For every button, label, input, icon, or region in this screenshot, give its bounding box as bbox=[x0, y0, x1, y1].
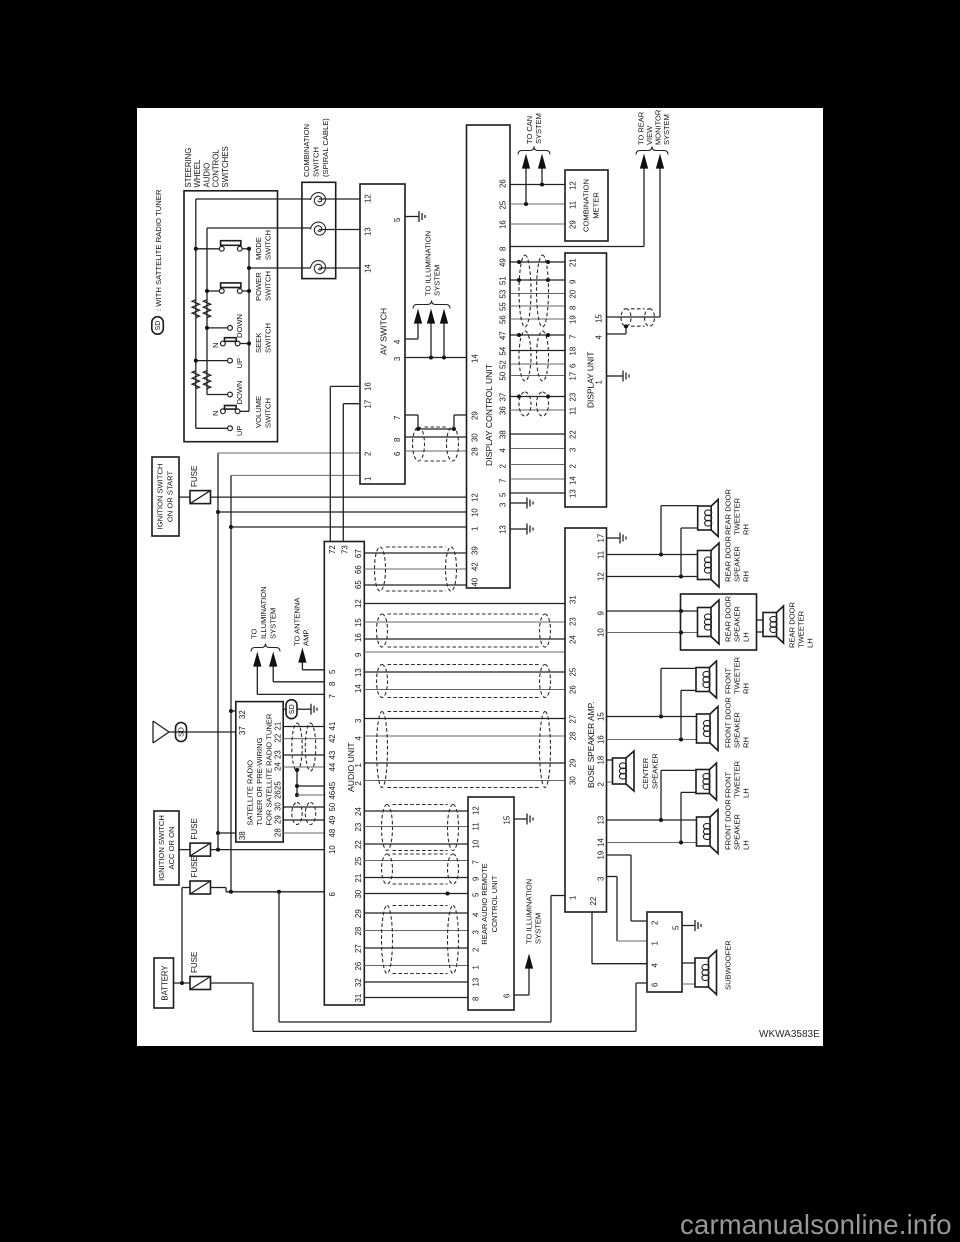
svg-text:9: 9 bbox=[597, 611, 606, 615]
svg-text:31: 31 bbox=[569, 595, 578, 604]
svg-text:11: 11 bbox=[569, 201, 578, 209]
display control to display unit quint 49-21 51-9 53-20 55-8 56-19 bbox=[510, 261, 565, 263]
svg-text:44: 44 bbox=[328, 762, 337, 771]
svg-text:10: 10 bbox=[328, 845, 337, 854]
svg-text:ILLUMINATION: ILLUMINATION bbox=[259, 586, 268, 639]
illumination brace and label at AV switch bbox=[413, 301, 450, 309]
svg-text:26: 26 bbox=[274, 790, 283, 799]
svg-text:40: 40 bbox=[471, 577, 480, 586]
svg-text:16: 16 bbox=[499, 220, 508, 229]
svg-text:8: 8 bbox=[472, 997, 481, 1001]
bose pin 10 wire bbox=[607, 632, 698, 634]
svg-text:RH: RH bbox=[742, 524, 751, 535]
svg-text:FRONT: FRONT bbox=[724, 771, 733, 798]
svg-text:RH: RH bbox=[742, 571, 751, 582]
bose pin 15 to front door speaker RH and front tweeter RH bbox=[607, 716, 697, 718]
svg-text:SWITCH: SWITCH bbox=[264, 230, 273, 260]
bose pin 22 to subwoofer connector pin 4 bbox=[591, 912, 593, 964]
svg-text:42: 42 bbox=[471, 562, 480, 571]
svg-text:TO ANTENNA: TO ANTENNA bbox=[293, 597, 302, 646]
svg-text:SYSTEM: SYSTEM bbox=[433, 265, 442, 296]
svg-text:TO CAN: TO CAN bbox=[525, 116, 534, 144]
svg-text:12: 12 bbox=[471, 493, 480, 502]
svg-text:45: 45 bbox=[328, 781, 337, 790]
wire rail1 to spiral S1 to AV pin 12 bbox=[196, 198, 311, 200]
svg-text:15: 15 bbox=[503, 815, 512, 824]
watermark carmanualsonline.info bbox=[680, 1209, 952, 1241]
shield drain to audio pin 45 bbox=[296, 770, 298, 795]
svg-text:LH: LH bbox=[742, 632, 751, 642]
AV pin 4 to illumination arrow bbox=[405, 338, 418, 340]
svg-text:41: 41 bbox=[328, 722, 337, 731]
svg-text:8: 8 bbox=[499, 247, 508, 251]
svg-text:37: 37 bbox=[499, 393, 508, 402]
power feed: BATTERY box bbox=[154, 958, 174, 1008]
REAR DOOR SPEAKER LH speaker bbox=[698, 608, 712, 637]
svg-text:7: 7 bbox=[499, 479, 508, 483]
svg-text:2: 2 bbox=[597, 782, 606, 786]
svg-text:STEERING: STEERING bbox=[184, 148, 193, 188]
svg-text:4: 4 bbox=[393, 339, 402, 344]
svg-text:5: 5 bbox=[672, 925, 681, 930]
svg-text:SEEK: SEEK bbox=[254, 333, 263, 353]
svg-text:TO ILLUMINATION: TO ILLUMINATION bbox=[424, 231, 433, 296]
svg-text:21: 21 bbox=[354, 874, 363, 883]
svg-text:12: 12 bbox=[472, 806, 481, 815]
svg-text:56: 56 bbox=[499, 315, 508, 324]
svg-text:48: 48 bbox=[328, 829, 337, 838]
svg-text:24: 24 bbox=[354, 807, 363, 816]
wire ACC to fuse F1 bbox=[179, 849, 190, 851]
svg-text:49: 49 bbox=[499, 258, 508, 267]
svg-text:UP: UP bbox=[235, 358, 244, 369]
REAR DOOR TWEETER RH speaker bbox=[698, 506, 712, 530]
audio to bose pair 15-23 16-24 bbox=[364, 621, 565, 623]
svg-text:TWEETER: TWEETER bbox=[733, 760, 742, 798]
audio to rear-audio wires 32-13 31-8 bbox=[364, 981, 468, 983]
svg-text:N: N bbox=[211, 343, 220, 348]
svg-text:14: 14 bbox=[471, 354, 480, 363]
svg-text:SATELLITE RADIO: SATELLITE RADIO bbox=[246, 760, 255, 826]
FRONT TWEETER LH speaker bbox=[696, 770, 710, 794]
svg-text:REAR AUDIO REMOTE: REAR AUDIO REMOTE bbox=[480, 863, 489, 944]
svg-text:3: 3 bbox=[569, 448, 578, 452]
svg-text:12: 12 bbox=[364, 194, 373, 203]
svg-text:14: 14 bbox=[597, 838, 606, 847]
resistor R4 bbox=[203, 371, 210, 389]
svg-text:21: 21 bbox=[569, 258, 578, 267]
svg-text:1: 1 bbox=[471, 527, 480, 531]
svg-text:49: 49 bbox=[328, 816, 337, 825]
svg-text:26: 26 bbox=[569, 685, 578, 694]
svg-text:FRONT DOOR: FRONT DOOR bbox=[724, 799, 733, 850]
svg-text:25: 25 bbox=[499, 200, 508, 209]
svg-text:22: 22 bbox=[274, 734, 283, 743]
svg-text:4: 4 bbox=[354, 736, 363, 741]
svg-text:6: 6 bbox=[569, 364, 578, 368]
svg-text:2: 2 bbox=[569, 464, 578, 468]
svg-text:17: 17 bbox=[364, 400, 373, 409]
AV pin 7 to display pin 29 shielded bbox=[405, 414, 418, 416]
svg-text:N: N bbox=[211, 411, 220, 416]
SEEK SWITCH up contact bbox=[228, 358, 233, 363]
diagram code label bbox=[759, 1029, 820, 1040]
svg-text:2: 2 bbox=[364, 452, 373, 456]
svg-text:15: 15 bbox=[354, 618, 363, 627]
svg-text:7: 7 bbox=[393, 416, 402, 420]
svg-text:2: 2 bbox=[499, 464, 508, 468]
subwoofer connector pin 5 ground bbox=[682, 925, 690, 927]
svg-text:50: 50 bbox=[328, 802, 337, 811]
svg-text:29: 29 bbox=[471, 411, 480, 420]
svg-text:47: 47 bbox=[499, 331, 508, 340]
svg-text:FUSE: FUSE bbox=[190, 856, 199, 877]
svg-text:13: 13 bbox=[354, 668, 363, 677]
svg-text:IGNITION SWITCH: IGNITION SWITCH bbox=[156, 464, 165, 530]
svg-text:30: 30 bbox=[471, 433, 480, 442]
bose pin 3 to subwoofer connector pin 1 bbox=[607, 876, 618, 878]
bose pin 14 wire bbox=[607, 842, 697, 844]
CAN system arrows bbox=[524, 202, 528, 206]
svg-text:TWEETER: TWEETER bbox=[733, 656, 742, 694]
svg-text:55: 55 bbox=[499, 302, 508, 311]
STEERING WHEEL AUDIO CONTROL SWITCHES box bbox=[184, 191, 278, 442]
svg-text:10: 10 bbox=[472, 839, 481, 848]
svg-text:12: 12 bbox=[597, 572, 606, 581]
bose pin 19 to subwoofer connector pin 2 bbox=[607, 854, 632, 856]
wire rail2 to spiral S2 to AV pin 13 bbox=[207, 227, 311, 229]
svg-text:2: 2 bbox=[472, 948, 481, 952]
svg-text:SPEAKER: SPEAKER bbox=[733, 712, 742, 748]
svg-text:REAR DOOR: REAR DOOR bbox=[724, 535, 733, 582]
illumination brace and label at audio unit bbox=[251, 644, 280, 652]
svg-text:SWITCH: SWITCH bbox=[264, 323, 273, 353]
svg-text:4: 4 bbox=[472, 912, 481, 917]
svg-text:12: 12 bbox=[569, 181, 578, 190]
REAR DOOR TWEETER LH speaker bbox=[763, 613, 777, 637]
svg-text:1: 1 bbox=[569, 896, 578, 900]
audio to bose wire 12-31 bbox=[364, 603, 565, 605]
wiring diagram sheet (rotated 90deg CCW schematic) bbox=[137, 108, 823, 1046]
svg-text:26: 26 bbox=[354, 962, 363, 971]
svg-text:8: 8 bbox=[328, 682, 337, 686]
resistor R2 bbox=[203, 300, 210, 318]
svg-text:METER: METER bbox=[592, 192, 601, 219]
svg-text:65: 65 bbox=[354, 580, 363, 589]
svg-text:FUSE: FUSE bbox=[190, 952, 199, 973]
bose pin 9 to rear door speaker LH bbox=[607, 610, 698, 612]
subwoofer wires bbox=[682, 962, 695, 964]
svg-text:13: 13 bbox=[569, 489, 578, 498]
svg-text:SYSTEM: SYSTEM bbox=[534, 113, 543, 144]
svg-text:38: 38 bbox=[499, 430, 508, 439]
POWER SWITCH bbox=[219, 289, 224, 294]
resistor R3 bbox=[192, 371, 199, 389]
audio unit antenna amp arrow from pin 5 bbox=[302, 669, 324, 671]
svg-text:FUSE: FUSE bbox=[190, 818, 199, 839]
display control to display unit wires 38-22 4-3 2-2 7-14 5-13 bbox=[510, 433, 565, 435]
svg-text:4: 4 bbox=[499, 448, 508, 453]
AV SWITCH box bbox=[360, 184, 405, 484]
display unit pin 15 shielded wire to rear view monitor bbox=[607, 316, 661, 318]
svg-text:6: 6 bbox=[651, 983, 660, 987]
svg-text:13: 13 bbox=[499, 525, 508, 534]
svg-text:5: 5 bbox=[393, 217, 402, 222]
svg-text:15: 15 bbox=[595, 314, 604, 323]
svg-text:REAR DOOR: REAR DOOR bbox=[788, 601, 797, 648]
svg-text:23: 23 bbox=[354, 823, 363, 832]
display unit pin 4 shield drain bbox=[607, 333, 627, 335]
audio to rear-audio wire 30-5 bbox=[364, 893, 468, 895]
svg-text:42: 42 bbox=[328, 734, 337, 743]
svg-text:5: 5 bbox=[472, 892, 481, 897]
wire ignition to fuse F4 bbox=[179, 496, 190, 498]
svg-text:8: 8 bbox=[569, 306, 578, 310]
svg-text:WHEEL: WHEEL bbox=[193, 159, 202, 187]
VOLUME SWITCH down contact bbox=[228, 392, 233, 397]
svg-text:18: 18 bbox=[597, 756, 606, 765]
svg-text:3: 3 bbox=[597, 877, 606, 881]
svg-text:22: 22 bbox=[569, 430, 578, 439]
svg-text:14: 14 bbox=[364, 264, 373, 273]
SEEK SWITCH N contact bbox=[221, 341, 226, 346]
svg-text:TWEETER: TWEETER bbox=[733, 497, 742, 535]
svg-text:SUBWOOFER: SUBWOOFER bbox=[724, 940, 733, 990]
steering rail 1 bbox=[195, 199, 197, 428]
battery rail to AV switch pin 1 / display pin 1 / sat pin 32 bbox=[230, 475, 232, 891]
svg-text:25: 25 bbox=[274, 781, 283, 790]
svg-text:4: 4 bbox=[651, 963, 660, 968]
svg-text:36: 36 bbox=[499, 406, 508, 415]
svg-text:25: 25 bbox=[569, 667, 578, 676]
shield ellipses AV to display bbox=[413, 427, 425, 461]
svg-text:29: 29 bbox=[569, 220, 578, 229]
fuse F1 ACC bbox=[190, 843, 211, 856]
svg-text:COMBINATION: COMBINATION bbox=[582, 179, 591, 232]
svg-text:9: 9 bbox=[569, 280, 578, 284]
SATELLITE RADIO TUNER box bbox=[236, 702, 283, 842]
svg-text:24: 24 bbox=[274, 762, 283, 771]
subwoofer connector box bbox=[647, 912, 682, 992]
switch output chain bbox=[248, 249, 250, 412]
bose pin 13 to front door speaker LH and front tweeter LH bbox=[607, 819, 697, 821]
svg-text:6: 6 bbox=[328, 892, 337, 896]
svg-text:5: 5 bbox=[328, 669, 337, 674]
svg-text:5: 5 bbox=[499, 492, 508, 497]
svg-text:SWITCHES: SWITCHES bbox=[221, 146, 230, 187]
svg-text:4: 4 bbox=[595, 335, 604, 340]
svg-text:SWITCH: SWITCH bbox=[264, 271, 273, 301]
spiral S3 bbox=[311, 261, 326, 274]
svg-text:28: 28 bbox=[569, 732, 578, 741]
svg-text:30: 30 bbox=[569, 776, 578, 785]
svg-text:27: 27 bbox=[354, 944, 363, 953]
svg-text:13: 13 bbox=[597, 816, 606, 825]
svg-text:21: 21 bbox=[274, 722, 283, 731]
display control to combination meter wires bbox=[510, 184, 565, 186]
svg-text:SD: SD bbox=[155, 321, 162, 331]
REAR AUDIO REMOTE CONTROL UNIT box bbox=[468, 797, 514, 1010]
svg-text:CONTROL: CONTROL bbox=[212, 149, 221, 188]
audio to rear-audio pair 25-7 21-9 bbox=[364, 860, 468, 862]
svg-text:MODE: MODE bbox=[254, 237, 263, 260]
bose pin 12 wire bbox=[607, 576, 698, 578]
svg-text:SPEAKER: SPEAKER bbox=[733, 606, 742, 642]
SUBWOOFER speaker bbox=[695, 958, 709, 987]
svg-text:16: 16 bbox=[597, 735, 606, 744]
satellite cable ellipses pair A bbox=[292, 723, 302, 771]
COMBINATION SWITCH SPIRAL CABLE box bbox=[302, 182, 336, 278]
svg-text:11: 11 bbox=[472, 822, 481, 830]
svg-text:28: 28 bbox=[354, 927, 363, 936]
svg-text:3: 3 bbox=[354, 719, 363, 723]
svg-text:12: 12 bbox=[354, 599, 363, 608]
svg-text:DISPLAY CONTROL UNIT: DISPLAY CONTROL UNIT bbox=[484, 363, 494, 466]
satellite pin 32 SD pill and ground bbox=[283, 708, 286, 710]
svg-text:SWITCH: SWITCH bbox=[264, 398, 273, 428]
FRONT DOOR SPEAKER LH speaker bbox=[697, 817, 711, 846]
DISPLAY UNIT box bbox=[565, 253, 607, 507]
svg-text:AUDIO: AUDIO bbox=[202, 163, 211, 188]
DISPLAY CONTROL UNIT box bbox=[467, 125, 511, 588]
svg-text:28: 28 bbox=[471, 447, 480, 456]
svg-text:SD: SD bbox=[289, 704, 296, 714]
ACC rail to AV switch pin 2 / display pin 10 / sat pin 38 bbox=[217, 453, 219, 850]
steering rail 2 bbox=[206, 228, 208, 395]
BOSE SPEAKER AMP box bbox=[565, 528, 607, 912]
svg-text:AV SWITCH: AV SWITCH bbox=[379, 308, 389, 355]
svg-text:: WITH SATTELITE RADIO TUNER: : WITH SATTELITE RADIO TUNER bbox=[154, 189, 163, 311]
bose pin 16 wire bbox=[607, 739, 697, 741]
svg-text:SPEAKER: SPEAKER bbox=[651, 753, 660, 789]
antenna SD pill bbox=[176, 723, 187, 742]
svg-text:16: 16 bbox=[364, 382, 373, 391]
svg-text:SWITCH: SWITCH bbox=[312, 147, 321, 177]
svg-text:11: 11 bbox=[597, 551, 606, 559]
svg-text:1: 1 bbox=[364, 477, 373, 481]
AUDIO UNIT box bbox=[324, 542, 364, 1006]
svg-text:SYSTEM: SYSTEM bbox=[662, 114, 671, 145]
svg-text:13: 13 bbox=[364, 227, 373, 236]
svg-text:50: 50 bbox=[499, 371, 508, 380]
svg-text:6: 6 bbox=[503, 994, 512, 998]
svg-text:TUNER OR PRE-WIRING: TUNER OR PRE-WIRING bbox=[255, 737, 264, 825]
AV pin 6 to display pin 28 bbox=[405, 450, 467, 452]
svg-text:BATTERY: BATTERY bbox=[161, 965, 170, 1001]
battery branch to bose amp pin 1 bbox=[278, 892, 280, 1022]
display control to display unit pair 37-23 36-11 bbox=[510, 396, 565, 398]
svg-text:LH: LH bbox=[742, 788, 751, 798]
svg-text:46: 46 bbox=[328, 791, 337, 800]
svg-text:14: 14 bbox=[354, 684, 363, 693]
svg-text:DOWN: DOWN bbox=[235, 380, 244, 404]
svg-text:31: 31 bbox=[354, 994, 363, 1003]
svg-text:CENTER: CENTER bbox=[641, 757, 650, 789]
svg-text:IGNITION SWITCH: IGNITION SWITCH bbox=[157, 815, 166, 881]
svg-text:15: 15 bbox=[597, 712, 606, 721]
svg-text:39: 39 bbox=[471, 546, 480, 555]
rear door LH wiring loop bbox=[681, 594, 757, 650]
svg-text:17: 17 bbox=[569, 372, 578, 381]
svg-text:37: 37 bbox=[238, 726, 247, 735]
svg-text:29: 29 bbox=[354, 909, 363, 918]
svg-text:LH: LH bbox=[742, 840, 751, 850]
audio to rear-audio quad 29-4 28-3 27-2 26-1 bbox=[364, 912, 468, 914]
REAR DOOR SPEAKER RH speaker bbox=[698, 551, 712, 580]
svg-text:27: 27 bbox=[569, 715, 578, 724]
svg-text:REAR DOOR: REAR DOOR bbox=[724, 595, 733, 642]
svg-text:SPEAKER: SPEAKER bbox=[733, 546, 742, 582]
svg-text:FOR SATELLITE RADIO TUNER: FOR SATELLITE RADIO TUNER bbox=[265, 713, 274, 825]
svg-text:43: 43 bbox=[328, 751, 337, 760]
bose pins 18 2 to center speaker bbox=[607, 759, 613, 761]
audio to bose quad 3-27 4-28 1-29 2-30 bbox=[364, 718, 565, 720]
svg-text:3: 3 bbox=[472, 930, 481, 934]
power feed: IGNITION SWITCH ON OR START box bbox=[152, 457, 179, 536]
svg-text:6: 6 bbox=[393, 452, 402, 456]
svg-text:23: 23 bbox=[569, 617, 578, 626]
svg-text:TWEETER: TWEETER bbox=[797, 610, 806, 648]
resistor R1 bbox=[192, 300, 199, 318]
fuse F2 battery bbox=[190, 881, 211, 894]
svg-text:8: 8 bbox=[393, 438, 402, 442]
antenna symbol bbox=[152, 721, 154, 743]
power feed: IGNITION SWITCH ACC OR ON box bbox=[154, 811, 179, 885]
audio to display shielded triple 67-39 66-42 65-40 bbox=[364, 552, 466, 554]
AV pin 3 to display pin 14 with illumination branches bbox=[405, 357, 467, 359]
CAN brace and label bbox=[518, 147, 550, 155]
svg-text:11: 11 bbox=[569, 407, 578, 415]
spiral S2 bbox=[311, 222, 326, 235]
legend SD pill bbox=[152, 317, 164, 335]
svg-text:RH: RH bbox=[742, 737, 751, 748]
svg-text:32: 32 bbox=[238, 710, 247, 719]
display control pin 8 wire to rear view monitor bbox=[510, 246, 644, 248]
svg-text:7: 7 bbox=[328, 694, 337, 698]
svg-text:SPEAKER: SPEAKER bbox=[733, 814, 742, 850]
svg-text:23: 23 bbox=[569, 393, 578, 402]
svg-text:19: 19 bbox=[569, 315, 578, 324]
svg-text:DOWN: DOWN bbox=[235, 314, 244, 338]
svg-text:3: 3 bbox=[393, 357, 402, 361]
ignition wire to display control unit pin 12 bbox=[211, 496, 467, 498]
svg-text:BOSE SPEAKER AMP.: BOSE SPEAKER AMP. bbox=[586, 702, 596, 788]
svg-text:14: 14 bbox=[569, 476, 578, 485]
svg-text:(SPIRAL CABLE): (SPIRAL CABLE) bbox=[321, 118, 330, 177]
svg-text:TO: TO bbox=[250, 628, 259, 639]
svg-text:1: 1 bbox=[472, 965, 481, 969]
audio to rear-audio triple 24-12 23-11 22-10 bbox=[364, 810, 468, 812]
svg-text:72: 72 bbox=[328, 545, 337, 554]
svg-text:FUSE: FUSE bbox=[190, 466, 199, 487]
CENTER SPEAKER speaker bbox=[613, 758, 627, 784]
svg-text:22: 22 bbox=[354, 840, 363, 849]
svg-text:SYSTEM: SYSTEM bbox=[534, 913, 543, 944]
svg-text:19: 19 bbox=[597, 851, 606, 860]
FRONT TWEETER RH speaker bbox=[696, 668, 710, 692]
svg-text:1: 1 bbox=[354, 763, 363, 767]
FRONT DOOR SPEAKER RH speaker bbox=[697, 714, 711, 743]
MODE SWITCH bbox=[219, 246, 224, 251]
svg-text:AMP.: AMP. bbox=[302, 628, 311, 646]
AV pin 8 to display pin 30 bbox=[405, 436, 467, 438]
wire battery fuse F3 to subwoofer bus bbox=[211, 982, 254, 984]
wire chain to spiral S3 to AV pin 14 bbox=[249, 267, 311, 269]
svg-text:COMBINATION: COMBINATION bbox=[302, 124, 311, 177]
svg-text:51: 51 bbox=[499, 276, 508, 285]
wire battery fuse F2 rail to audio unit pin 6 bbox=[211, 887, 227, 889]
rear view monitor brace and label bbox=[636, 147, 668, 155]
